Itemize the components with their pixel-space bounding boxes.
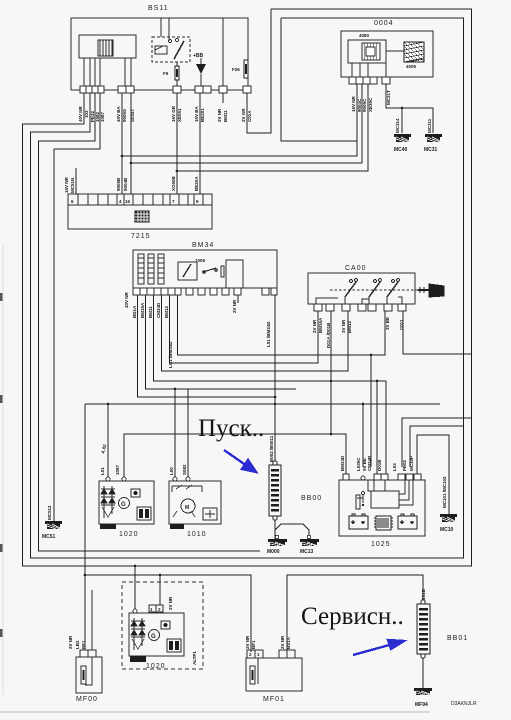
svg-text:MC311: MC311 (427, 118, 432, 133)
svg-text:MC51N: MC51N (70, 178, 75, 193)
svg-text:PE02: PE02 (402, 459, 407, 471)
svg-text:M000: M000 (267, 549, 280, 555)
unit CA00 ignition switch (308, 273, 418, 304)
wire n-shape to 1025 pin L03 (402, 418, 472, 467)
wire MF00 tee to MF01 pin BF (85, 575, 251, 652)
svg-text:7215: 7215 (131, 233, 151, 240)
fusible link MF01 (246, 650, 302, 691)
wire BM34 BM12 to CA00 BM16A (170, 295, 319, 363)
ground below BB01 (414, 688, 432, 695)
CA00 pin boxes (314, 304, 406, 311)
CA00 key symbol (418, 284, 444, 297)
7215 inner connector icon (135, 211, 149, 222)
hatched display 4005 in 0004 (404, 42, 424, 62)
svg-text:9004B: 9004B (123, 177, 128, 191)
svg-text:S082: S082 (182, 464, 187, 475)
svg-text:F5: F5 (163, 71, 169, 76)
svg-text:2V NR: 2V NR (232, 299, 237, 313)
wire BM34 CM34D to CA00 BM12 (162, 295, 349, 371)
svg-text:16V NR: 16V NR (351, 95, 356, 112)
wire 9005C 0004 (131, 84, 362, 163)
unit 1025 battery control (339, 476, 425, 536)
svg-text:MC101 /MC102: MC101 /MC102 (442, 476, 447, 508)
svg-text:BB01: BB01 (447, 635, 468, 642)
wire BM34 BM11 to 1025 D01B (154, 295, 387, 474)
svg-text:C01A: C01A (247, 110, 252, 122)
svg-text:CM34D: CM34D (156, 302, 161, 318)
svg-text:1010: 1010 (187, 531, 207, 538)
svg-text:3V NR: 3V NR (341, 319, 346, 333)
wire BM34 BM16A to 1010 pins (146, 295, 297, 389)
wire BE201 BS11 to 7215 pin 9 (199, 93, 201, 194)
wire BM34 LG1/BM34D down to BB00 (274, 295, 276, 464)
wire XE35C 0004 to XE051 (177, 84, 368, 171)
svg-text:BD1A: BD1A (132, 305, 137, 318)
svg-text:G: G (151, 634, 156, 640)
ground MC40 (394, 134, 411, 142)
svg-text:LB2: LB2 (75, 640, 80, 649)
svg-text:BM34: BM34 (192, 242, 214, 249)
svg-text:9005B: 9005B (116, 177, 121, 191)
scan artifacts (0, 245, 430, 712)
svg-text:BM16A: BM16A (140, 302, 145, 318)
svg-text:BS11: BS11 (148, 5, 169, 12)
+BB supply arrow (193, 53, 206, 86)
svg-text:40V NR: 40V NR (124, 291, 129, 308)
svg-text:LG1 /BM34D: LG1 /BM34D (168, 341, 173, 368)
wire bus to 1025 L030C (362, 404, 364, 467)
svg-text:2V NR: 2V NR (245, 635, 250, 649)
svg-text:ALTP1: ALTP1 (192, 651, 197, 665)
wire C011 right side riser (403, 311, 472, 354)
svg-text:2V NR: 2V NR (168, 596, 173, 610)
svg-text:16V GR: 16V GR (171, 105, 176, 122)
svg-text:+BB: +BB (193, 53, 204, 59)
wire BB00 to grounds M000 MC13 (274, 519, 276, 539)
svg-text:BE20A: BE20A (194, 176, 199, 191)
svg-text:D01A /D01B: D01A /D01B (326, 322, 331, 348)
BM34 pin boxes (133, 288, 277, 295)
wire inner loop branch y141 (281, 18, 357, 141)
svg-text:XO50B: XO50B (171, 175, 176, 191)
svg-text:MF94: MF94 (415, 702, 428, 708)
wire bus to 1020 pin L01 (107, 404, 109, 479)
svg-text:MC512: MC512 (47, 505, 52, 520)
svg-text:4005: 4005 (406, 64, 417, 69)
wire MC51N to 7215 pin 6 (75, 168, 77, 194)
svg-text:XE35C: XE35C (368, 97, 373, 112)
svg-text:MC10P: MC10P (409, 456, 414, 471)
svg-text:BE201: BE201 (200, 108, 205, 122)
bottom alternator dashed box (122, 582, 203, 669)
svg-text:Сервисн..: Сервисн.. (301, 603, 404, 630)
wire MF01 BS1A to BB01 (287, 575, 423, 652)
svg-text:BM16A: BM16A (318, 317, 323, 333)
svg-text:1087: 1087 (115, 464, 120, 475)
wire BS11 pin 1087 to MC51 ground (54, 93, 100, 521)
wire 9005S BS11 to connector 7215 pin 4 (121, 93, 123, 194)
rotated labels 1025 (47, 455, 447, 520)
wire MC31T 0004 to grounds MC40 MC31 (386, 84, 433, 133)
svg-text:2V NR: 2V NR (68, 635, 73, 649)
svg-text:BB00: BB00 (301, 495, 322, 502)
svg-text:2V GR: 2V GR (241, 108, 246, 122)
wire BM34 2V NR stub (237, 295, 239, 303)
fusible link MF00 (76, 590, 102, 693)
svg-text:F26: F26 (232, 67, 240, 72)
svg-text:40V NR: 40V NR (78, 105, 83, 122)
rotated labels 0004 (351, 90, 432, 133)
svg-text:BF1: BF1 (251, 640, 256, 649)
unit BS11 engine fuse box (71, 18, 248, 90)
ground MC51 (45, 521, 62, 529)
svg-text:MC10: MC10 (440, 527, 454, 533)
svg-text:L01: L01 (100, 467, 105, 475)
svg-text:2V NR: 2V NR (217, 108, 222, 122)
svg-text:CM34B: CM34B (367, 455, 372, 471)
svg-text:1020: 1020 (119, 531, 139, 538)
svg-text:MC13: MC13 (300, 549, 314, 555)
svg-text:2V NR: 2V NR (312, 319, 317, 333)
svg-text:Пуск..: Пуск.. (198, 415, 264, 442)
wire XE051 BS11 pin 5 to 7215 pin 7 (176, 93, 178, 194)
rotated labels 1020 1010 (100, 435, 274, 475)
svg-text:D01B: D01B (377, 459, 382, 471)
wire BS11 pin 103 to left bus and bottom loop to 1025 L03 (23, 9, 472, 566)
svg-text:S034T: S034T (130, 108, 135, 122)
ground names (42, 147, 454, 708)
svg-text:MF00: MF00 (76, 696, 98, 703)
wire BS11 pin 1082 to left bus bottom (39, 93, 261, 551)
connector BB00 (269, 461, 281, 520)
svg-text:BM34D: BM34D (340, 455, 345, 471)
ground MC10 (440, 514, 457, 522)
svg-text:L00: L00 (169, 467, 174, 475)
svg-text:BM12: BM12 (164, 305, 169, 318)
svg-text:CA00: CA00 (345, 265, 367, 272)
fuse F26 (244, 60, 248, 78)
rotated labels near 7215 (64, 175, 199, 193)
ground MC13 (300, 535, 319, 546)
1025 battery icons (349, 514, 417, 530)
svg-text:16V BA: 16V BA (194, 105, 199, 122)
connector strip 7215 (68, 194, 212, 229)
unit 1010 starter motor (169, 477, 221, 529)
svg-text:BS1B: BS1B (421, 588, 426, 601)
svg-text:C011: C011 (399, 319, 404, 330)
blue arrow to BB00 (224, 450, 256, 472)
svg-text:B002 /B0011: B002 /B0011 (269, 435, 274, 462)
svg-text:BM11: BM11 (223, 110, 228, 122)
svg-text:G: G (121, 502, 126, 508)
svg-text:MF01: MF01 (263, 696, 285, 703)
svg-text:9005S: 9005S (122, 109, 127, 122)
BS11 pin boxes (80, 86, 251, 93)
rotated wire labels BS11 (78, 105, 252, 122)
svg-text:L03: L03 (392, 463, 397, 471)
wire BB01 to ground (422, 654, 424, 688)
svg-text:BF1: BF1 (81, 640, 86, 649)
wire 9004C 0004 to 7215 branch (122, 84, 357, 156)
unit 1020 generator left (99, 477, 154, 529)
svg-text:9005C: 9005C (362, 98, 367, 112)
svg-text:MC51: MC51 (42, 534, 56, 540)
svg-text:M: M (185, 505, 189, 511)
connector BB01 (417, 600, 430, 658)
svg-text:MC31T: MC31T (386, 90, 391, 105)
svg-text:L030C: L030C (356, 457, 361, 471)
fuse F5 (175, 66, 179, 80)
svg-text:1087: 1087 (100, 111, 105, 122)
relay in BS11 (152, 37, 190, 86)
rotated labels CA00 (312, 317, 404, 348)
wire bus left down to MF00 (84, 404, 86, 650)
svg-text:2V NR: 2V NR (280, 635, 285, 649)
svg-text:MC40: MC40 (394, 147, 408, 153)
svg-text:D3AKNJLR: D3AKNJLR (451, 701, 477, 707)
wire S034T BS11 to connector 7215 pin 16 (130, 93, 132, 194)
svg-text:BS1A: BS1A (286, 636, 291, 649)
svg-text:4080: 4080 (359, 33, 370, 38)
1025 pin boxes (343, 474, 421, 480)
svg-text:40V BA: 40V BA (116, 105, 121, 122)
svg-text:MC31: MC31 (424, 147, 438, 153)
wire BM11 stub BS11 pin 1 (222, 93, 224, 103)
svg-text:1025: 1025 (371, 541, 391, 548)
wire 1025 MC10P to ground MC10 (417, 435, 449, 514)
ground MC31 (425, 134, 442, 142)
rotated labels BM34 (124, 291, 271, 368)
svg-text:103: 103 (84, 110, 89, 118)
unit BM34 (133, 250, 277, 288)
wire alternator 1020 feeds (134, 566, 136, 611)
wire BM34 BD1A to 1025 BM34D (138, 295, 276, 397)
rotated labels bottom (68, 588, 426, 665)
svg-text:L01 /BM34D: L01 /BM34D (266, 321, 271, 347)
small feature labels (163, 33, 417, 263)
svg-text:16V NR: 16V NR (64, 176, 69, 193)
wire BM34 CM34B to CA00 3V BE and 1025 (178, 295, 386, 355)
svg-text:MC314: MC314 (395, 118, 400, 133)
ground M000 (268, 535, 287, 546)
svg-text:16: 16 (125, 199, 131, 204)
wire C01A BS11 pin 2 up over top to CA00 C011 (247, 9, 271, 133)
svg-text:BM12: BM12 (347, 320, 352, 333)
unit 1020 alternator (129, 605, 184, 662)
svg-text:1020: 1020 (146, 663, 166, 670)
wire n-shape to 1025 pin PE02 (410, 426, 464, 467)
blue arrow to BB01 (353, 640, 404, 655)
svg-text:3V BE: 3V BE (385, 317, 390, 330)
svg-text:0004: 0004 (374, 20, 394, 27)
svg-text:XE051: XE051 (177, 108, 182, 122)
wire battery bus y404 (85, 403, 440, 405)
wire BS11 pin PE32 to left bus up right side top (31, 18, 464, 558)
unit 0004 instrument cluster (341, 31, 433, 77)
wire CA00 D01A to 1020 pin 1087 (124, 311, 331, 479)
component titles (76, 5, 468, 703)
svg-text:BM11: BM11 (148, 306, 153, 318)
